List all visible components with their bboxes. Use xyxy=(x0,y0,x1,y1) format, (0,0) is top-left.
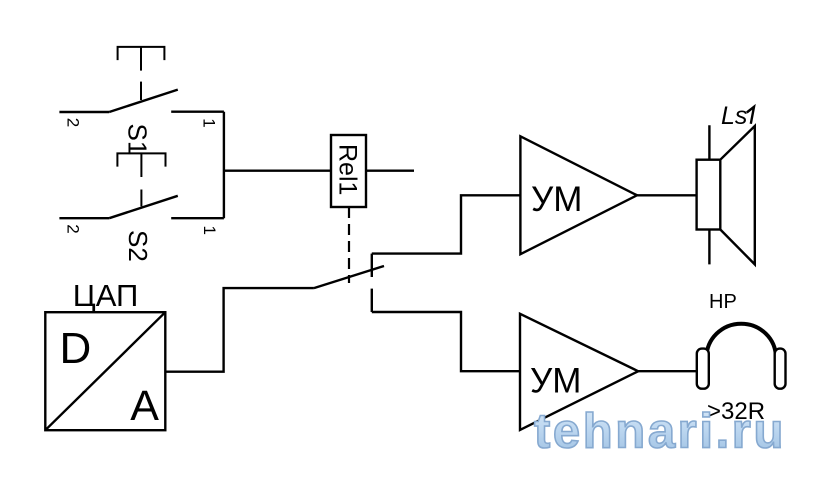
switch S1 lever xyxy=(109,90,178,112)
wire: DAC output to changeover common xyxy=(165,288,314,372)
svg-text:S2: S2 xyxy=(123,230,153,262)
wire: junction to relay Rel1 xyxy=(224,169,331,171)
op-amp UM2 (bottom power amplifier) triangle xyxy=(520,314,638,430)
switch S2 lever xyxy=(109,196,178,218)
switch S2 dashed actuator link xyxy=(140,190,142,207)
wire: UM2 output to headphones xyxy=(638,370,697,372)
svg-text:D: D xyxy=(60,324,92,373)
svg-text:2: 2 xyxy=(64,224,83,233)
svg-text:Ls: Ls xyxy=(721,102,747,130)
changeover switch lever xyxy=(314,266,384,288)
headphones HP left earpiece xyxy=(697,349,709,389)
svg-text:Rel1: Rel1 xyxy=(334,144,362,195)
switch S1 actuator bracket xyxy=(118,47,165,71)
headphones HP right earpiece xyxy=(775,349,786,389)
svg-text:ЦАП: ЦАП xyxy=(73,278,139,313)
svg-text:A: A xyxy=(130,382,159,430)
Rel1 dashed actuation line xyxy=(348,207,350,283)
svg-text:1: 1 xyxy=(200,118,219,127)
changeover top contact stub xyxy=(371,254,373,277)
op-amp UM1 (top power amplifier) triangle xyxy=(520,136,637,254)
svg-text:HP: HP xyxy=(709,291,737,313)
svg-text:УМ: УМ xyxy=(530,361,581,400)
loudspeaker Ls1 terminal wires xyxy=(708,125,710,264)
svg-text:tehnari.ru: tehnari.ru xyxy=(534,405,786,459)
switch S1 pin 1 contact wire xyxy=(171,110,224,112)
switch S2 pin 2 contact wire xyxy=(59,217,109,219)
wire: top contact to amplifier UM1 xyxy=(372,195,521,253)
wire: Rel1 right stub xyxy=(366,169,414,171)
wire: bottom contact to amplifier UM2 xyxy=(372,312,520,371)
svg-text:1: 1 xyxy=(200,226,219,235)
headphones HP headband arc xyxy=(707,324,776,358)
wire: S1/S2 pin-1 junction bus xyxy=(223,112,225,219)
svg-text:S1: S1 xyxy=(123,124,153,156)
switch S1 pin 2 contact wire xyxy=(59,111,109,113)
switch S2 actuator bracket xyxy=(117,153,165,177)
switch S1 dashed actuator link xyxy=(140,82,142,100)
wire: UM1 output to speaker xyxy=(637,194,697,196)
changeover bottom contact stub xyxy=(371,289,373,312)
label Ls1 xyxy=(721,102,754,130)
relay Rel1 box xyxy=(331,135,366,207)
loudspeaker Ls1 body xyxy=(697,160,721,230)
svg-text:УМ: УМ xyxy=(531,180,582,219)
svg-text:2: 2 xyxy=(64,118,83,127)
DAC block ЦАП xyxy=(45,312,165,430)
loudspeaker Ls1 cone xyxy=(720,126,755,264)
switch S2 pin 1 contact wire xyxy=(171,217,224,219)
